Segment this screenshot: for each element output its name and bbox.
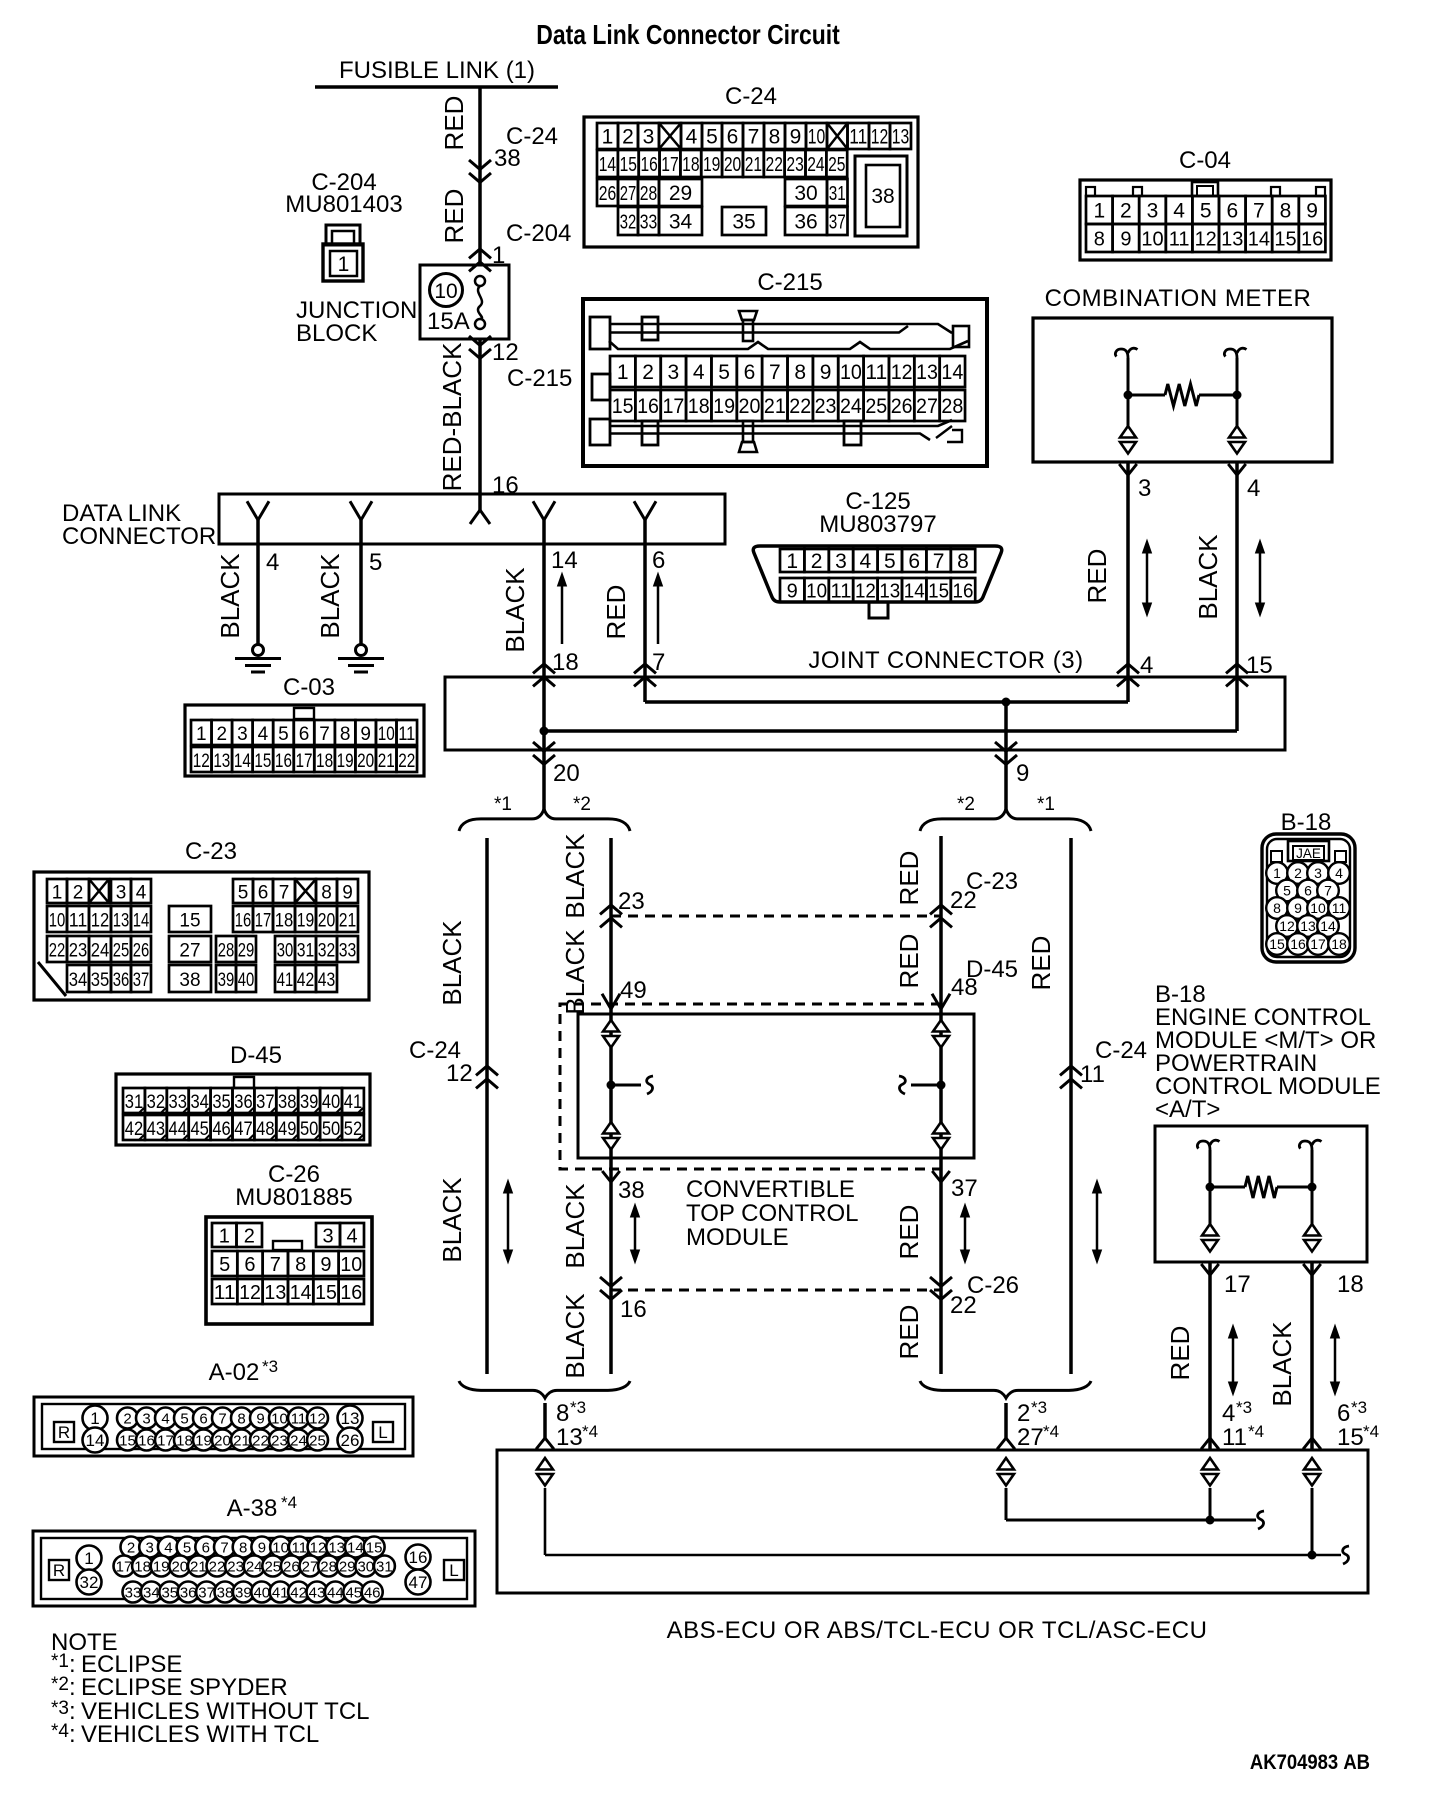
svg-text:27: 27 [1017,1424,1044,1451]
svg-text:7: 7 [769,361,781,384]
svg-text:12: 12 [855,581,876,603]
svg-text:21: 21 [378,751,395,772]
svg-text:ECLIPSE SPYDER: ECLIPSE SPYDER [81,1674,288,1701]
svg-text:5: 5 [884,550,896,573]
svg-text:23: 23 [69,941,88,962]
svg-text:32: 32 [147,1092,165,1113]
svg-text:MU803797: MU803797 [819,511,936,538]
svg-text:2: 2 [622,126,634,149]
svg-text:10: 10 [49,911,66,932]
svg-text:11: 11 [214,1282,236,1304]
svg-text:5: 5 [369,549,382,576]
dashed line C-26 [611,1289,941,1292]
abs entry fork ecm18 [1303,1438,1321,1449]
svg-text:35: 35 [91,970,110,991]
svg-text:26: 26 [891,395,913,418]
svg-text:4: 4 [693,361,705,384]
svg-text:14: 14 [1320,918,1336,934]
ground symbol left [253,645,264,656]
svg-text:A-02: A-02 [209,1359,260,1386]
svg-text:39: 39 [218,970,235,991]
svg-text:4: 4 [164,1539,172,1556]
svg-text:16: 16 [409,1548,428,1567]
svg-text:C-204: C-204 [506,220,571,247]
svg-text:6: 6 [1337,1400,1350,1427]
svg-text:1: 1 [602,126,614,149]
meter resistor [1128,394,1165,397]
arrow both ways inner [634,1212,637,1255]
svg-text:36: 36 [234,1092,252,1113]
svg-text:22: 22 [398,751,415,772]
svg-text:28: 28 [941,395,963,418]
svg-text:19: 19 [153,1558,170,1575]
joint exit chevrons 9 [995,742,1017,751]
wire RED from fusible link [478,87,482,265]
svg-text:38: 38 [618,1177,645,1204]
svg-text:2: 2 [244,1226,255,1248]
connector C-26 pictorial [206,1217,372,1324]
module entry fork 48 [932,994,950,1009]
svg-text:23: 23 [271,1432,288,1449]
svg-text:5: 5 [278,724,289,745]
module left terminal top [603,1020,619,1032]
connector crossing C-24 pin 11 chevrons [1060,1066,1082,1075]
svg-text:14: 14 [290,1282,312,1304]
connector C-215 pictorial [583,299,987,466]
svg-text:2: 2 [217,724,228,745]
arrow both ways right [1259,548,1262,608]
svg-text:21: 21 [745,154,762,176]
svg-text:15: 15 [254,751,271,772]
svg-text:26: 26 [341,1431,360,1450]
svg-text:25: 25 [309,1432,326,1449]
svg-text:46: 46 [212,1119,230,1140]
svg-text:4: 4 [346,1226,357,1248]
svg-text:1: 1 [196,724,207,745]
svg-text:2: 2 [127,1539,135,1556]
junction block box [420,265,509,339]
module left curl [647,1076,653,1094]
svg-text:42: 42 [297,970,315,991]
svg-text:3: 3 [1147,200,1159,223]
svg-text:3: 3 [835,550,847,573]
dlc pin fork 14 [533,501,555,520]
wire dlc pin14 BLACK [542,544,546,677]
svg-text:10: 10 [840,361,862,384]
svg-text:6: 6 [908,550,920,573]
abs junction lower [1308,1551,1317,1560]
svg-text:42: 42 [125,1119,143,1140]
svg-text:BLACK: BLACK [560,1183,590,1269]
joint bus lower [544,729,1237,733]
svg-text:29: 29 [339,1558,356,1575]
svg-text:TOP CONTROL: TOP CONTROL [686,1200,858,1227]
svg-text:43: 43 [147,1119,165,1140]
svg-text:22: 22 [789,395,811,418]
svg-text:BLACK: BLACK [315,553,345,639]
svg-text:12: 12 [193,751,210,772]
svg-text:15: 15 [928,581,949,603]
svg-text:13: 13 [213,751,230,772]
svg-text:17: 17 [255,911,272,932]
svg-text:13: 13 [1300,918,1316,934]
module dashed boundary [560,1004,941,1169]
connector B-18 pictorial [1262,834,1355,962]
svg-text:12: 12 [239,1282,261,1304]
svg-text:8: 8 [556,1400,569,1427]
svg-text:RED: RED [601,585,631,640]
svg-text:13: 13 [264,1282,286,1304]
svg-text:15: 15 [1274,229,1296,251]
svg-text:11: 11 [1169,229,1190,251]
connector C-03 pictorial [185,705,424,776]
svg-text:1: 1 [219,1226,230,1248]
svg-text:2: 2 [73,883,84,904]
svg-text:14: 14 [551,547,578,574]
svg-text:15: 15 [1337,1424,1364,1451]
svg-text:20: 20 [318,911,336,932]
svg-text:4: 4 [1335,865,1343,881]
svg-text:17: 17 [661,154,678,176]
svg-text:17: 17 [1310,936,1326,952]
wire right outer RED [1069,838,1073,1374]
svg-text:RED: RED [1082,549,1112,604]
svg-text:BLOCK: BLOCK [296,320,377,347]
abs terminal arrow 2 [998,1458,1014,1470]
svg-text:1: 1 [338,253,350,276]
meter internal junction left [1124,391,1133,400]
svg-text:9: 9 [820,361,832,384]
svg-text:20: 20 [739,395,761,418]
svg-text:20: 20 [357,751,374,772]
svg-text:24: 24 [840,395,862,418]
wire meter pin 3 RED [1126,462,1130,677]
svg-text:5: 5 [219,1254,230,1276]
dlc supply caret [470,510,490,524]
svg-text:22: 22 [252,1432,269,1449]
svg-text:35: 35 [732,211,755,234]
svg-text:1: 1 [1273,865,1281,881]
svg-text:16: 16 [953,581,974,603]
svg-text:RED: RED [894,1305,924,1360]
meter internal junction right [1233,391,1242,400]
svg-text:11: 11 [1080,1061,1105,1088]
svg-text:9: 9 [360,724,371,745]
abs entry fork ecm17 [1201,1438,1219,1449]
arrow both ways ecm left [1232,1333,1235,1387]
svg-text:20: 20 [553,760,580,787]
svg-text:MU801885: MU801885 [235,1184,352,1211]
svg-text:BLACK: BLACK [215,553,245,639]
svg-text:18: 18 [1337,1271,1364,1298]
svg-text:BLACK: BLACK [437,1177,467,1263]
ecm terminal arrow left [1202,1224,1218,1236]
svg-text:33: 33 [339,941,357,962]
svg-text:11: 11 [849,126,867,149]
svg-text:25: 25 [264,1558,281,1575]
arrow both ways outer right [1096,1188,1099,1255]
svg-text:4: 4 [860,550,872,573]
svg-text:5: 5 [706,126,718,149]
svg-text:24: 24 [290,1432,307,1449]
svg-text:12: 12 [91,911,110,932]
arrow up 14 [561,579,564,644]
ground symbol right [356,645,367,656]
svg-text:15: 15 [1246,652,1273,679]
fusible link bus wire [315,85,558,89]
svg-text:*1: *1 [51,1651,69,1672]
svg-text:*2: *2 [51,1674,69,1695]
svg-text:RED: RED [439,96,469,151]
svg-text:5: 5 [183,1539,191,1556]
abs ecu box [497,1450,1368,1593]
svg-text:15: 15 [179,911,200,932]
svg-text:41: 41 [344,1092,362,1113]
svg-text:5: 5 [1200,200,1212,223]
svg-text:1: 1 [84,1549,93,1568]
abs curl upper [1258,1511,1264,1529]
svg-text:40: 40 [253,1584,270,1601]
svg-text:23: 23 [618,888,645,915]
svg-text:24: 24 [807,154,824,176]
svg-text:12: 12 [871,126,889,149]
svg-text:16: 16 [340,1282,362,1304]
arrow both ways inner right [964,1212,967,1255]
meter pin fork 4 [1228,464,1246,475]
svg-text:RED: RED [894,934,924,989]
arrow both ways left [1146,548,1149,608]
connector D-45 pictorial [116,1074,370,1145]
svg-text:43: 43 [309,1584,326,1601]
connector crossing C-204 pin 1 chevrons [469,249,491,258]
wire to abs left [543,1403,547,1438]
svg-text:28: 28 [320,1558,337,1575]
svg-text:9: 9 [1016,760,1029,787]
svg-text:C-24: C-24 [725,83,777,110]
svg-text:34: 34 [669,211,693,234]
svg-text:14: 14 [599,154,616,176]
svg-text:1: 1 [1093,200,1105,223]
svg-text:FUSIBLE LINK (1): FUSIBLE LINK (1) [339,57,535,84]
svg-text:14: 14 [1248,229,1270,251]
svg-text:48: 48 [256,1119,274,1140]
svg-text:*2: *2 [957,794,975,815]
merge brace left [459,1381,630,1398]
svg-text:*1: *1 [494,794,512,815]
abs terminal arrow 4 [1304,1458,1320,1470]
module left internal wire [610,1050,613,1124]
module right terminal bottom [933,1122,949,1134]
svg-text:4: 4 [686,126,698,149]
svg-text:D-45: D-45 [230,1042,282,1069]
svg-text:BLACK: BLACK [560,833,590,919]
svg-text:35: 35 [212,1092,230,1113]
svg-text:BLACK: BLACK [560,1293,590,1379]
svg-text:JAE: JAE [1296,846,1321,861]
svg-text:13: 13 [892,126,910,149]
svg-text:34: 34 [69,970,88,991]
svg-text:11: 11 [1332,900,1347,916]
svg-text:6: 6 [744,361,756,384]
svg-text:MU801403: MU801403 [285,191,402,218]
svg-text:19: 19 [703,154,720,176]
svg-text:19: 19 [337,751,354,772]
svg-text:29: 29 [669,182,692,205]
ecm pin fork 18 [1303,1264,1321,1275]
wire right inner RED [939,836,943,1374]
svg-text:15: 15 [1269,936,1285,952]
svg-text:8: 8 [769,126,781,149]
svg-text:3: 3 [668,361,680,384]
connector A-38 pictorial [33,1531,475,1606]
svg-text:8: 8 [1094,229,1105,251]
arrow both ways ecm right [1334,1333,1337,1387]
svg-text:3: 3 [1314,865,1322,881]
svg-text:15A: 15A [427,308,470,335]
svg-text:23: 23 [786,154,803,176]
svg-text:12: 12 [310,1539,327,1556]
svg-text:16: 16 [640,154,657,176]
svg-text:10: 10 [271,1410,288,1427]
svg-text:23: 23 [227,1558,244,1575]
svg-text:C-215: C-215 [507,365,572,392]
svg-text:13: 13 [556,1424,583,1451]
svg-text:47: 47 [234,1119,252,1140]
svg-text:17: 17 [157,1432,174,1449]
joint entry chevrons 18 [533,664,555,673]
combination meter box [1033,318,1332,462]
svg-text:44: 44 [327,1584,344,1601]
abs terminal arrow 1 [537,1458,553,1470]
svg-text:10: 10 [272,1539,289,1556]
svg-text:BLACK: BLACK [500,567,530,653]
svg-text:4: 4 [1140,652,1153,679]
svg-text:37: 37 [951,1175,978,1202]
svg-text:7: 7 [270,1254,281,1276]
svg-text:16: 16 [620,1296,647,1323]
joint junction dot right [1002,698,1011,707]
svg-text:6: 6 [1304,883,1312,899]
fuse element symbol [475,276,485,286]
svg-text:24: 24 [91,941,110,962]
svg-text:18: 18 [1331,936,1347,952]
svg-text:7: 7 [933,550,945,573]
svg-text:10: 10 [340,1254,362,1276]
ecm box [1155,1126,1367,1262]
svg-text:14: 14 [234,751,251,772]
svg-text:47: 47 [409,1573,428,1592]
joint wire from pin 7 [643,677,647,702]
svg-text:49: 49 [620,977,647,1004]
svg-text:RED: RED [1026,936,1056,991]
svg-text:RED: RED [1165,1326,1195,1381]
svg-text:15: 15 [366,1539,383,1556]
svg-text:19: 19 [297,911,315,932]
svg-text:40: 40 [322,1092,340,1113]
connector crossing C-23 chevrons right [930,905,952,914]
wire RED-BLACK [478,339,482,512]
svg-text:<A/T>: <A/T> [1155,1096,1220,1123]
svg-text:19: 19 [713,395,735,418]
svg-text:11: 11 [398,724,415,745]
svg-text:5: 5 [238,883,249,904]
svg-text:*4: *4 [51,1721,69,1742]
svg-text:MODULE: MODULE [686,1224,789,1251]
split brace right [920,809,1091,831]
svg-text:*2: *2 [573,794,591,815]
wire meter pin 4 BLACK [1235,462,1239,677]
svg-text:13: 13 [916,361,938,384]
svg-text:JOINT CONNECTOR (3): JOINT CONNECTOR (3) [808,647,1083,674]
svg-text:28: 28 [218,941,235,962]
svg-text:14: 14 [347,1539,364,1556]
svg-text:38: 38 [179,970,200,991]
svg-text:17: 17 [1224,1271,1251,1298]
svg-text:2: 2 [1120,200,1132,223]
svg-text:21: 21 [190,1558,207,1575]
svg-text:25: 25 [828,154,845,176]
connector crossing C-26 chevrons right [930,1277,952,1286]
dashed line C-23 [611,915,941,918]
svg-text:3: 3 [643,126,655,149]
abs curl lower [1343,1546,1349,1564]
svg-text:13: 13 [328,1539,345,1556]
svg-text:30: 30 [357,1558,374,1575]
joint entry chevrons 7 [634,664,656,673]
svg-text:16: 16 [275,751,292,772]
svg-text:21: 21 [764,395,786,418]
svg-text:15: 15 [119,1432,136,1449]
svg-text:*4: *4 [1248,1422,1264,1441]
svg-text:3: 3 [322,1226,333,1248]
svg-text:3: 3 [146,1539,154,1556]
svg-text:12: 12 [446,1060,473,1087]
svg-text:A-38: A-38 [227,1495,278,1522]
svg-text:18: 18 [688,395,710,418]
svg-text:*1: *1 [1037,794,1055,815]
svg-text:20: 20 [724,154,741,176]
svg-text:38: 38 [494,145,521,172]
svg-text:14: 14 [86,1431,105,1450]
svg-text:7: 7 [1253,200,1265,223]
svg-text:BLACK: BLACK [1193,534,1223,620]
svg-text:27: 27 [916,395,938,418]
svg-text:33: 33 [169,1092,187,1113]
svg-text:8: 8 [1280,200,1292,223]
svg-text:30: 30 [794,182,817,205]
svg-text:9: 9 [790,126,802,149]
svg-text:11: 11 [292,1539,308,1556]
svg-text:22: 22 [950,1292,977,1319]
svg-text:10: 10 [808,126,826,149]
svg-text:38: 38 [871,185,894,208]
svg-text:27: 27 [620,183,637,205]
svg-text:*3: *3 [1031,1398,1047,1417]
ecm pin fork 17 [1201,1264,1219,1275]
svg-text:25: 25 [113,941,130,962]
svg-text:42: 42 [290,1584,307,1601]
svg-text:21: 21 [339,911,357,932]
svg-text:22: 22 [49,941,66,962]
svg-text:16: 16 [1301,229,1323,251]
svg-text:39: 39 [300,1092,318,1113]
svg-text:4: 4 [258,724,269,745]
svg-text:6: 6 [244,1254,255,1276]
svg-text:8: 8 [794,361,806,384]
svg-text:8: 8 [321,883,332,904]
svg-text:2: 2 [642,361,654,384]
svg-text:3: 3 [142,1410,150,1427]
